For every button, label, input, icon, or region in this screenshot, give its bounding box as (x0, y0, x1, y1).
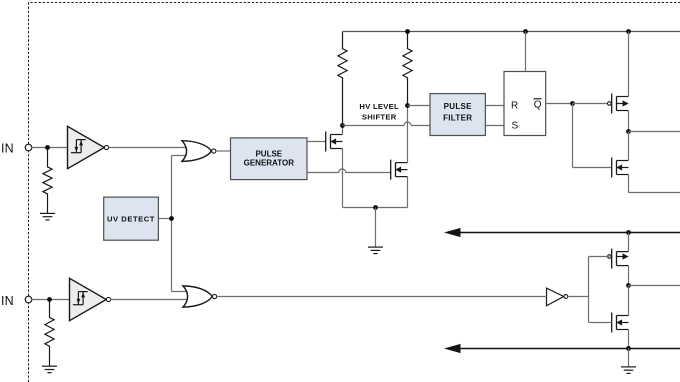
wire latch supply to rail (525, 32, 527, 72)
wire LO output to pin (629, 285, 680, 287)
label IN (high-side input) (1, 141, 14, 155)
block UV DETECT (104, 197, 159, 240)
transistor U2 (high-side NMOS) (612, 158, 629, 178)
block PULSE GENERATOR (231, 138, 308, 180)
wire PG top output to M1 gate (307, 141, 326, 143)
node HIN input terminal (25, 144, 32, 151)
node junction rail/U1 source (626, 29, 631, 34)
node junction LO (626, 283, 631, 288)
wire pulse filter to R input (485, 105, 504, 107)
wire U4 source to COM (628, 329, 630, 348)
svg-text:GENERATOR: GENERATOR (244, 159, 295, 168)
svg-text:SHIFTER: SHIFTER (362, 113, 397, 122)
wire U2 drain to HO node (628, 132, 630, 161)
wire U4 drain to LO node (628, 286, 630, 316)
node junction rail/latch (523, 29, 528, 34)
wire G1 lower input stub (172, 155, 187, 157)
svg-text:PULSE: PULSE (444, 102, 473, 111)
wire HO output to pin (629, 131, 680, 133)
transistor M1 (level shift NMOS) (326, 132, 343, 152)
svg-text:Q: Q (534, 100, 542, 111)
wire M2 source to common (407, 177, 409, 208)
svg-text:IN: IN (1, 141, 14, 155)
VB top rail (343, 31, 680, 33)
svg-text:FILTER: FILTER (443, 113, 472, 122)
wire COM to ground (628, 349, 630, 367)
node junction rail/R4 (405, 29, 410, 34)
wire Q down to U2 gate (573, 104, 612, 168)
wire level-shifter common rail (343, 207, 408, 209)
wire U1 source to rail (628, 32, 630, 97)
node junction Q output (570, 101, 575, 106)
wire VCC to U3 source (628, 233, 630, 252)
label HV LEVEL SHIFTER (359, 102, 399, 121)
svg-text:S: S (512, 121, 519, 132)
wire A1 output to NOR1 (108, 147, 185, 149)
wire UV bus vertical (171, 156, 173, 292)
wire COM feed with left arrow (444, 344, 680, 353)
block PULSE FILTER (430, 94, 485, 136)
ground below R2 (42, 366, 57, 373)
NOR gate G2 (low side) (183, 286, 217, 307)
ground below R1 (40, 213, 55, 220)
transistor U3 (low-side PMOS) (608, 249, 629, 269)
schmitt buffer A2 (LIN) (70, 278, 111, 320)
wire PG bottom output with hop over M1 source (307, 169, 391, 172)
wire common to ground (375, 208, 377, 248)
wire pulse filter to S input (485, 125, 504, 127)
node junction COM/ground (626, 346, 631, 351)
node junction UV bus (169, 216, 174, 221)
wire M1 source to common (342, 149, 344, 208)
wire U3 gate lead (589, 256, 610, 258)
wire LIN terminal to buffer (32, 299, 70, 301)
node junction VCC/U3 (626, 230, 631, 235)
resistor R2 (LIN pulldown) (45, 300, 54, 367)
NOR gate G1 (high side) (182, 141, 216, 162)
wire UV DETECT output (158, 218, 171, 220)
node junction M1 drain / R3 (340, 123, 345, 128)
transistor U1 (high-side PMOS) (608, 94, 629, 114)
transistor U4 (low-side NMOS) (612, 313, 629, 333)
resistor R4 (right pull-up) (403, 32, 412, 106)
wire U4 gate lead (589, 322, 612, 324)
wire R4 node to pulse filter (408, 105, 431, 107)
transistor M2 (level shift NMOS) (391, 160, 408, 180)
inverter G3 (low side driver) (547, 288, 568, 306)
svg-text:PULSE: PULSE (255, 149, 282, 158)
wire A2 output to NOR2 (110, 299, 186, 301)
wire M2 drain (407, 106, 409, 163)
wire driver gate bus (588, 257, 590, 323)
wire G2 output to inverter (217, 296, 547, 298)
resistor R1 (HIN pulldown) (43, 148, 52, 214)
label IN (low-side input) (1, 294, 14, 308)
wire VCC feed with left arrow (444, 228, 680, 237)
wire U1 drain to HO node (628, 110, 630, 131)
wire U2 source to VS (629, 174, 680, 192)
wire Q to U1 gate (573, 103, 610, 105)
wire U3 drain to LO node (628, 266, 630, 286)
node junction R4 / pulse filter (405, 103, 410, 108)
svg-text:HV LEVEL: HV LEVEL (359, 102, 399, 111)
svg-text:UV DETECT: UV DETECT (107, 214, 155, 223)
wire latch Q output (546, 103, 573, 105)
node junction HIN/R1 (45, 145, 50, 150)
node junction common/ground (373, 205, 378, 210)
wire M1 drain (342, 126, 344, 135)
wire inverter output to gate bus (568, 296, 589, 298)
latch U5 (RS flip-flop) (504, 72, 546, 136)
ground of low-side stage (621, 367, 636, 374)
node junction LIN/R2 (47, 297, 52, 302)
wire G2 upper input stub (172, 291, 188, 293)
node junction HO (626, 129, 631, 134)
resistor R3 (left pull-up) (338, 32, 347, 126)
wire G1 output to pulse generator (216, 150, 231, 152)
ground of level shifter (368, 247, 383, 254)
schmitt buffer A1 (HIN) (68, 126, 109, 168)
wire HIN terminal to buffer (32, 147, 68, 149)
svg-text:IN: IN (1, 294, 14, 308)
wire R3 node to pulse filter with hop over R4 wire (343, 122, 431, 126)
node LIN input terminal (25, 296, 32, 303)
svg-text:R: R (511, 101, 518, 112)
